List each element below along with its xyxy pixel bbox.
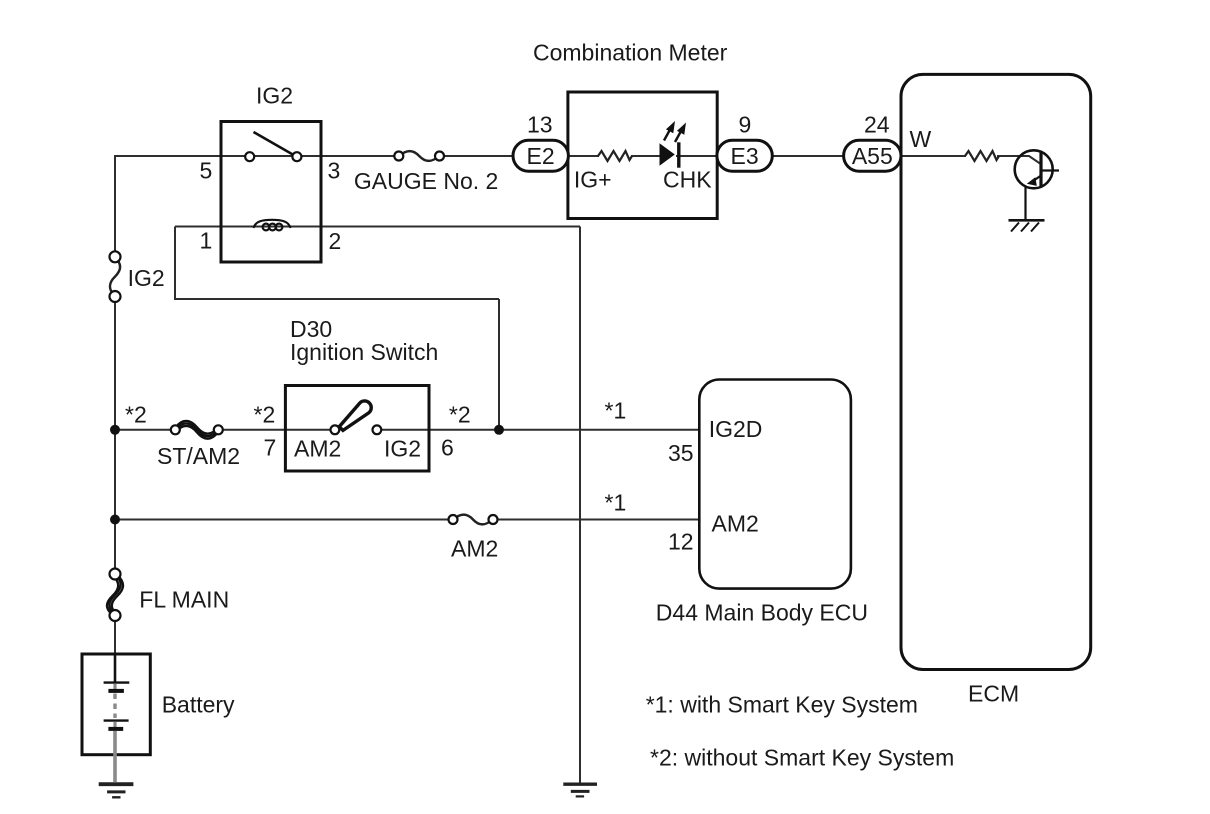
svg-text:12: 12	[668, 529, 694, 555]
svg-text:AM2: AM2	[294, 436, 341, 462]
ECM box	[901, 74, 1091, 669]
svg-text:ECM: ECM	[968, 681, 1019, 707]
fuse circle gauge left	[394, 152, 403, 161]
svg-text:24: 24	[864, 112, 890, 138]
svg-text:IG2: IG2	[128, 265, 165, 291]
wire ST/AM2 to D30 pin7	[218, 429, 335, 431]
resistor (ECM)	[965, 151, 999, 161]
svg-text:IG2D: IG2D	[709, 416, 763, 442]
svg-text:FL MAIN: FL MAIN	[139, 587, 229, 613]
svg-text:Combination Meter: Combination Meter	[533, 40, 728, 66]
svg-text:E2: E2	[527, 143, 555, 169]
svg-text:35: 35	[668, 440, 694, 466]
main body ECU D44 box	[699, 380, 851, 589]
wire A55 into ECM	[901, 155, 966, 157]
relay switch arm	[254, 132, 295, 156]
wire resistor to LED	[631, 155, 662, 157]
LED CHK diode	[660, 143, 675, 166]
wire coil pin2 down x580 to ground	[579, 227, 581, 784]
fuse circle AM2 left	[449, 515, 458, 524]
fuse circle ST/AM2 right	[214, 425, 223, 434]
svg-text:A55: A55	[852, 143, 893, 169]
wire LED to E3 to A55	[676, 155, 872, 157]
wire E2 to resistor (meter)	[568, 155, 599, 157]
wire ignition row left	[115, 429, 175, 431]
wire main feed y156 left	[115, 156, 399, 257]
svg-text:AM2: AM2	[451, 536, 498, 562]
wire coil pin1 down and across y299	[175, 227, 499, 300]
battery box	[82, 654, 150, 755]
fuse GAUGE No.2 wave	[399, 151, 440, 161]
svg-text:*1: *1	[605, 398, 627, 424]
svg-text:*2: without Smart Key System: *2: without Smart Key System	[650, 745, 954, 771]
junction IG2 node	[494, 425, 504, 435]
fuse circle IG2 top	[110, 251, 121, 262]
svg-text:D44 Main Body ECU: D44 Main Body ECU	[656, 600, 868, 626]
svg-text:5: 5	[200, 158, 213, 184]
svg-text:Ignition Switch: Ignition Switch	[290, 339, 438, 365]
svg-text:7: 7	[264, 435, 277, 461]
resistor (meter IG+)	[598, 151, 632, 161]
wire gauge fuse to E2	[440, 155, 541, 157]
svg-text:IG2: IG2	[256, 83, 293, 109]
wire ECM resistor to transistor	[997, 156, 1042, 165]
fuse circle ST/AM2 left	[171, 425, 180, 434]
svg-text:6: 6	[441, 435, 454, 461]
svg-text:3: 3	[328, 158, 341, 184]
fuse circle FL MAIN top	[110, 569, 121, 580]
svg-text:13: 13	[527, 112, 553, 138]
relay pin 3 contact	[292, 152, 301, 161]
connector oval E2 pin 13	[513, 140, 568, 171]
svg-text:W: W	[910, 126, 932, 152]
wire AM2 fuse to D44	[493, 519, 699, 521]
svg-text:*2: *2	[254, 402, 276, 428]
fuse circle AM2 right	[489, 515, 498, 524]
fusible link FL MAIN thick wave	[107, 574, 123, 616]
svg-text:E3: E3	[731, 143, 759, 169]
svg-text:2: 2	[329, 228, 342, 254]
wire lower AM2 row left	[115, 519, 453, 521]
ignition switch contact pin 6 IG2	[373, 425, 382, 434]
ignition switch contact pin 7 AM2	[331, 425, 340, 434]
battery cells	[104, 654, 130, 782]
svg-text:1: 1	[200, 228, 213, 254]
wire left vertical below IG2 fuse	[114, 297, 116, 575]
LED arrow 1	[664, 122, 674, 140]
svg-text:IG+: IG+	[574, 167, 612, 193]
fuse AM2 wave	[453, 515, 493, 525]
svg-text:AM2: AM2	[712, 511, 759, 537]
combination meter box	[568, 92, 717, 219]
wire D30 pin6 to D44 IG2D	[377, 429, 699, 431]
ignition switch lever	[339, 401, 371, 430]
connector oval E3 pin 9	[717, 140, 772, 171]
svg-text:9: 9	[739, 112, 752, 138]
svg-text:*1: with Smart Key System: *1: with Smart Key System	[646, 692, 918, 718]
fuse circle gauge right	[435, 152, 444, 161]
svg-text:*2: *2	[125, 402, 147, 428]
ground (center, ignition circuit)	[563, 784, 597, 796]
ground (ECM transistor emitter)	[1009, 220, 1045, 231]
wire relay coil horizontal y226.5	[175, 226, 580, 228]
wire x499 down to junction	[498, 299, 500, 430]
LED arrow 2	[675, 124, 685, 142]
svg-text:ST/AM2: ST/AM2	[157, 443, 240, 469]
fuse circle FL MAIN bottom	[110, 610, 121, 621]
svg-text:*1: *1	[605, 490, 627, 516]
LED cathode bar	[677, 142, 680, 167]
connector oval A55 pin 24	[844, 140, 901, 171]
svg-text:Battery: Battery	[162, 692, 235, 718]
junction left-ignition	[110, 425, 120, 435]
svg-text:*2: *2	[449, 402, 471, 428]
fuse IG2 vertical wave	[110, 257, 120, 297]
svg-text:CHK: CHK	[663, 167, 712, 193]
junction left-AM2	[110, 515, 120, 525]
wire left vertical below FL MAIN to battery	[114, 616, 116, 655]
svg-text:GAUGE No. 2: GAUGE No. 2	[354, 168, 498, 194]
ground (battery)	[99, 784, 134, 797]
fuse circle IG2 bottom	[110, 291, 121, 302]
relay coil	[254, 220, 291, 231]
svg-text:IG2: IG2	[384, 436, 421, 462]
ignition switch D30 box	[285, 386, 429, 472]
relay pin 5 contact	[245, 152, 254, 161]
noise filter ST/AM2 braid	[175, 421, 218, 439]
relay IG2 box	[221, 122, 321, 263]
transistor Q (ECM output)	[1015, 150, 1059, 219]
